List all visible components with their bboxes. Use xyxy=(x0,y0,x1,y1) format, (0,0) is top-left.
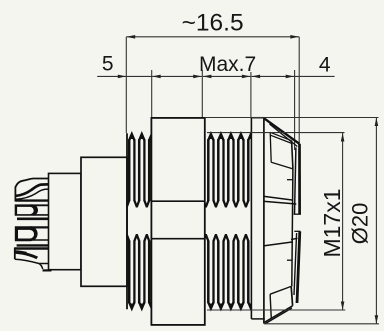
svg-text:M17x1: M17x1 xyxy=(319,188,345,257)
bell mid slant line 3 xyxy=(264,242,293,246)
bell mid slant line 4 xyxy=(291,238,298,239)
front bell shoulder top xyxy=(251,117,264,119)
left thread knurl xyxy=(124,134,159,309)
slot inner vertical xyxy=(292,169,293,287)
svg-text:~16.5: ~16.5 xyxy=(182,10,244,37)
body collar xyxy=(151,118,204,325)
collar mid line upper xyxy=(151,200,204,202)
front face notch ticks xyxy=(294,213,301,215)
front face edge upper xyxy=(298,144,301,214)
insulator block xyxy=(81,157,127,286)
bell mid slant line 1 xyxy=(264,196,293,200)
front bell top slant outer xyxy=(264,118,300,144)
bottom key slot window xyxy=(265,286,293,323)
svg-text:4: 4 xyxy=(319,53,331,76)
dimension M17x1 xyxy=(207,133,345,310)
slot inner tick upper xyxy=(287,179,293,181)
pin 4 (bottom solder contact) xyxy=(14,248,51,271)
front bell left edge xyxy=(263,118,265,324)
front bell shoulder bottom xyxy=(251,318,264,320)
front bell top slant inner xyxy=(270,124,298,147)
pin 3 (D-cup contact large) xyxy=(15,226,38,241)
pin carrier block xyxy=(49,173,82,269)
front face edge lower xyxy=(297,231,300,303)
pin 1 (top solder contact) xyxy=(15,179,48,202)
dimension row: 5, Max.7, 4 xyxy=(97,70,334,150)
top key slot window xyxy=(270,132,293,169)
collar mid line lower xyxy=(151,238,204,240)
dimension Ø20 xyxy=(205,118,379,324)
dimension ~16.5 xyxy=(126,37,299,144)
svg-text:5: 5 xyxy=(102,52,114,75)
svg-text:Max.7: Max.7 xyxy=(199,53,256,76)
bell mid slant line 2 xyxy=(264,201,296,204)
right thread knurl xyxy=(204,134,259,309)
pin 2 (D-cup contact) xyxy=(15,204,38,215)
slot inner tick lower xyxy=(287,259,292,261)
svg-text:Ø20: Ø20 xyxy=(348,203,373,245)
